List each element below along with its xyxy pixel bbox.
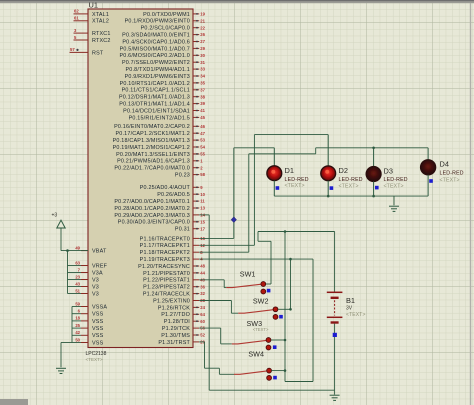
svg-text:SW4: SW4 — [248, 349, 264, 358]
switch SW2 state indicator — [279, 315, 283, 319]
wire V feed D3D4 x254.4 — [253, 135, 255, 246]
svg-text:VBAT: VBAT — [92, 249, 107, 255]
wire D1 anode drop — [273, 148, 275, 166]
svg-text:63: 63 — [75, 260, 80, 265]
wire SW1 pole feed seg2 — [223, 280, 225, 288]
pin P0.20/MAT1.3/SSEL1/EINT3 leg — [193, 153, 199, 155]
pin P0.23 leg — [193, 174, 199, 176]
wire D3 anode drop — [373, 148, 375, 167]
wire ground stem LED rail — [393, 196, 395, 205]
svg-text:35: 35 — [200, 81, 205, 86]
pin P0.17/CAP1.2/SCK1/MAT1.2 leg — [193, 132, 199, 134]
svg-text:P0.2/SCL0/CAP0.0: P0.2/SCL0/CAP0.0 — [141, 26, 190, 32]
wire H feed D2 y134.6 — [254, 134, 328, 136]
pin P1.17/TRACEPKT1 leg — [193, 244, 199, 246]
svg-text:51: 51 — [75, 288, 80, 293]
svg-text:P0.8/TXD1/PWM4/AD1.1: P0.8/TXD1/PWM4/AD1.1 — [125, 67, 190, 73]
svg-text:P1.25/EXTIN0: P1.25/EXTIN0 — [153, 298, 190, 304]
svg-text:P1.22/PIPESTAT1: P1.22/PIPESTAT1 — [143, 278, 190, 284]
pin P1.18/TRACEPKT2 leg — [193, 251, 199, 253]
wire SW4 pole feed seg3 — [205, 367, 220, 369]
wire H feed D3D4 lower y153.8 — [249, 153, 316, 155]
pin P0.31 leg — [193, 228, 199, 230]
svg-text:P0.25/AD0.4/AOUT: P0.25/AD0.4/AOUT — [140, 185, 191, 191]
wire SW2 pole feed seg2 — [230, 301, 232, 314]
switch SW4 state indicator — [273, 376, 277, 380]
svg-text:P0.13/DTR1/MAT1.1/AD1.4: P0.13/DTR1/MAT1.1/AD1.4 — [119, 102, 190, 108]
pin V3 leg — [81, 293, 88, 295]
svg-text:P1.27/TDO: P1.27/TDO — [161, 312, 190, 318]
svg-text:P0.9/RXD1/PWM6/EINT3: P0.9/RXD1/PWM6/EINT3 — [125, 74, 190, 80]
svg-text:+3: +3 — [52, 213, 58, 219]
pin P0.16/EINT0/MAT0.2/CAP0.2 leg — [193, 125, 199, 127]
pin P0.1/RXD0/PWM3/EINT0 leg — [193, 20, 199, 22]
svg-text:V3: V3 — [92, 284, 99, 290]
svg-text:P0.5/MISO0/MAT0.1/AD0.7: P0.5/MISO0/MAT0.1/AD0.7 — [120, 46, 190, 52]
svg-text:<TEXT>: <TEXT> — [346, 312, 366, 318]
svg-text:54: 54 — [200, 145, 205, 150]
pin V3A leg — [81, 272, 88, 274]
svg-text:U1: U1 — [89, 1, 98, 10]
svg-text:64: 64 — [200, 312, 205, 317]
wire H zigzag y241.3 — [258, 240, 271, 242]
pin P0.2/SCL0/CAP0.0 leg — [193, 27, 199, 29]
switch SW3 lever — [232, 340, 267, 344]
svg-text:P1.26/RTCK: P1.26/RTCK — [158, 305, 190, 311]
wire stub P0.29 — [199, 214, 209, 216]
svg-text:49: 49 — [75, 245, 80, 250]
svg-text:VSS: VSS — [92, 333, 104, 339]
svg-text:27: 27 — [200, 39, 205, 44]
wire H feed D3 D4 y147.8 — [316, 147, 428, 149]
svg-text:P0.18/CAP1.3/MISO1/MAT1.3: P0.18/CAP1.3/MISO1/MAT1.3 — [113, 138, 190, 144]
svg-text:P0.20/MAT1.3/SSEL1/EINT3: P0.20/MAT1.3/SSEL1/EINT3 — [116, 152, 190, 158]
svg-text:61: 61 — [74, 16, 79, 21]
bottom-left scrollbar corner — [0, 399, 28, 405]
switch SW2 lever — [238, 310, 273, 314]
wire V x313 — [312, 259, 314, 381]
svg-text:<TEXT>: <TEXT> — [339, 183, 359, 189]
svg-text:50: 50 — [75, 337, 80, 342]
wire SW1 pole feed seg3 — [224, 287, 226, 289]
svg-text:RTXC1: RTXC1 — [92, 31, 111, 37]
svg-text:30: 30 — [200, 53, 205, 58]
switch SW3 state indicator — [273, 345, 277, 349]
svg-text:P0.1/RXD0/PWM3/EINT0: P0.1/RXD0/PWM3/EINT0 — [125, 19, 190, 25]
svg-text:18: 18 — [75, 316, 80, 321]
wire SW4 throw wire seg1 — [272, 370, 285, 372]
svg-text:32: 32 — [200, 291, 205, 296]
svg-text:RST: RST — [92, 50, 104, 56]
svg-text:P0.27/AD0.0/CAP0.1/MAT0.1: P0.27/AD0.0/CAP0.1/MAT0.1 — [114, 199, 190, 205]
switch SW3 throw contact lower — [266, 345, 271, 350]
wire VSS bus stub y328.1 — [72, 327, 81, 329]
pin P0.10/RTS1/CAP1.0/AD1.2 leg — [193, 82, 199, 84]
wire H bottom ground rail y390.2 — [209, 389, 334, 391]
wire stub P1.18 — [199, 251, 249, 253]
svg-text:V3: V3 — [92, 291, 99, 297]
svg-text:P0.10/RTS1/CAP1.0/AD1.2: P0.10/RTS1/CAP1.0/AD1.2 — [120, 81, 190, 87]
svg-text:P1.23/PIPESTAT2: P1.23/PIPESTAT2 — [143, 285, 190, 291]
pin P1.26/RTCK leg — [193, 306, 199, 308]
svg-text:19: 19 — [200, 12, 205, 17]
node junction SW4 throw — [284, 369, 287, 372]
wire V SW2 throw x290.5 — [290, 259, 292, 309]
node junction D3 tap — [372, 147, 375, 150]
pin P0.0/TXD0/PWM1 leg — [193, 13, 199, 15]
svg-text:55: 55 — [200, 152, 205, 157]
pin P0.28/AD0.1/CAP0.2/MAT0.2 leg — [193, 207, 199, 209]
pin P0.30/AD0.3/EINT3/CAP0.0 leg — [193, 221, 199, 223]
pin P0.12/DSR1/MAT1.0/AD1.3 leg — [193, 96, 199, 98]
pin P0.18/CAP1.3/MISO1/MAT1.3 leg — [193, 139, 199, 141]
svg-text:D3: D3 — [384, 167, 393, 176]
wire H y381.5 — [285, 381, 313, 383]
wire H P1.19 y259.1 — [199, 258, 313, 260]
svg-text:P0.3/SDA0/MAT0.0/EINT1: P0.3/SDA0/MAT0.0/EINT1 — [122, 33, 190, 39]
wire SW4 pole feed seg5 — [219, 373, 234, 375]
pin VSS leg — [81, 313, 88, 315]
svg-text:P1.16/TRACEPKT0: P1.16/TRACEPKT0 — [140, 236, 190, 242]
pin VSS leg — [81, 334, 88, 336]
svg-text:36: 36 — [200, 284, 205, 289]
svg-text:XTAL2: XTAL2 — [92, 19, 109, 25]
pin P1.19/TRACEPKT3 leg — [193, 258, 199, 260]
svg-text:P0.21/PWM5/AD1.6/CAP1.3: P0.21/PWM5/AD1.6/CAP1.3 — [117, 159, 190, 165]
pin P0.8/TXD1/PWM4/AD1.1 leg — [193, 68, 199, 70]
svg-text:P1.17/TRACEPKT1: P1.17/TRACEPKT1 — [140, 243, 190, 249]
microcontroller U1 body — [88, 9, 193, 348]
pin P1.24/TRACECLK leg — [193, 293, 199, 295]
wire V feed D1 x233.8 — [233, 148, 235, 239]
pin VSS leg — [81, 320, 88, 322]
svg-text:P1.30/TMS: P1.30/TMS — [161, 333, 190, 339]
ground GND LED rail — [389, 206, 399, 211]
pin P1.28/TDI leg — [193, 320, 199, 322]
svg-text:VSS: VSS — [92, 319, 104, 325]
svg-text:D1: D1 — [285, 166, 294, 175]
svg-text:37: 37 — [200, 87, 205, 92]
wire VSS bus stub y313.7 — [72, 313, 81, 315]
wire SW3 pole feed seg2 — [220, 328, 222, 344]
wire LED cathode rail y196.1 — [274, 195, 428, 197]
switch SW2 throw contact lower — [273, 315, 278, 320]
svg-text:34: 34 — [200, 74, 205, 79]
svg-text:P0.7/SSEL0/PWM2/EINT2: P0.7/SSEL0/PWM2/EINT2 — [122, 60, 190, 66]
wire V3 bus stub y279.5 — [68, 279, 82, 281]
pin P0.9/RXD1/PWM6/EINT3 leg — [193, 75, 199, 77]
pin P0.27/AD0.0/CAP0.1/MAT0.1 leg — [193, 200, 199, 202]
svg-text:V3A: V3A — [92, 270, 103, 276]
svg-text:P0.16/EINT0/MAT0.2/CAP0.2: P0.16/EINT0/MAT0.2/CAP0.2 — [114, 124, 190, 130]
wire D3 cathode drop — [373, 181, 375, 196]
pin P0.11/CTS1/CAP1.1/SCL1 leg — [193, 89, 199, 91]
pin P0.19/MAT1.2/MOSI1/CAP1.2 leg — [193, 146, 199, 148]
pin VSS leg — [81, 327, 88, 329]
svg-text:62: 62 — [74, 9, 79, 14]
wire SW2 pole feed seg1 — [199, 300, 231, 302]
svg-text:D2: D2 — [339, 166, 348, 175]
svg-text:P1.29/TCK: P1.29/TCK — [162, 326, 190, 332]
svg-text:D4: D4 — [440, 160, 449, 169]
node junction SW3 throw — [284, 339, 287, 342]
ground GND battery — [330, 395, 340, 400]
pin P1.27/TDO leg — [193, 313, 199, 315]
svg-text:P1.24/TRACECLK: P1.24/TRACECLK — [143, 292, 190, 298]
wire SW3 throw wire seg1 — [271, 339, 285, 341]
wire SW1 throw wire seg1 — [266, 283, 271, 285]
svg-text:P1.21/PIPESTAT0: P1.21/PIPESTAT0 — [143, 271, 190, 277]
svg-text:24: 24 — [200, 305, 205, 310]
pin XTAL2 leg — [74, 20, 89, 22]
pin P1.22/PIPESTAT1 leg — [193, 279, 199, 281]
wire D2 anode drop — [327, 135, 329, 166]
svg-text:P0.30/AD0.3/EINT3/CAP0.0: P0.30/AD0.3/EINT3/CAP0.0 — [118, 220, 190, 226]
svg-text:P0.12/DSR1/MAT1.0/AD1.3: P0.12/DSR1/MAT1.0/AD1.3 — [119, 95, 190, 101]
svg-text:LED-RED: LED-RED — [440, 170, 464, 176]
pin P0.29/AD0.2/CAP0.3/MAT0.3 leg — [193, 214, 199, 216]
LED D2 state indicator — [330, 186, 334, 190]
pin VSS leg — [81, 342, 88, 344]
pin VSSA leg — [81, 306, 88, 308]
wire SW4 pole feed seg1 — [199, 341, 204, 343]
svg-text:58: 58 — [200, 172, 205, 177]
svg-text:17: 17 — [200, 226, 205, 231]
wire SW3 pole feed seg1 — [199, 327, 221, 329]
node junction +3V/V3 bus — [66, 249, 69, 252]
switch SW4 throw contact lower — [267, 376, 272, 381]
LED D3 — [366, 167, 381, 182]
svg-text:11: 11 — [200, 199, 205, 204]
top window edge bar — [0, 0, 474, 1]
pin P1.29/TCK leg — [193, 327, 199, 329]
svg-text:33: 33 — [200, 67, 205, 72]
switch SW1 lever — [226, 284, 261, 287]
pin P1.20/TRACESYNC leg — [193, 265, 199, 267]
LED D4 state indicator — [429, 179, 433, 183]
svg-text:<TEXT>: <TEXT> — [440, 178, 460, 184]
switch SW4 throw contact upper — [267, 368, 272, 373]
svg-text:45: 45 — [200, 115, 205, 120]
svg-text:P0.19/MAT1.2/MOSI1/CAP1.2: P0.19/MAT1.2/MOSI1/CAP1.2 — [113, 145, 190, 151]
pin P0.6/MOSI0/CAP0.2/AD1.0 leg — [193, 54, 199, 56]
switch SW1 throw contact upper — [261, 282, 266, 287]
wire D1 cathode drop — [273, 181, 275, 197]
wire V3 bus stub y293.5 — [68, 293, 82, 295]
wire VSS bus stub y342.5 — [72, 342, 81, 344]
svg-text:P0.31: P0.31 — [175, 227, 190, 233]
node junction x285 — [284, 230, 287, 233]
svg-text:15: 15 — [200, 219, 205, 224]
svg-text:RTXC2: RTXC2 — [92, 38, 111, 44]
wire VSS bus to ground — [61, 342, 72, 344]
wire SW2 throw wire seg1 — [278, 308, 290, 310]
pin VREF leg — [81, 265, 88, 267]
pin P0.15/RI1/EINT2/AD1.5 leg — [193, 116, 199, 118]
wire VSS bus stub y320.9 — [72, 320, 81, 322]
pin VBAT leg — [81, 250, 88, 252]
wire battery positive lead — [334, 232, 336, 292]
right window edge line — [470, 3, 471, 405]
pin P0.22/AD1.7/CAP0.0/MAT0.0 leg — [193, 167, 199, 169]
pin RST leg — [70, 51, 89, 53]
switch SW3 throw contact upper — [266, 338, 271, 343]
pin P1.30/TMS leg — [193, 334, 199, 336]
LED D3 state indicator — [375, 186, 379, 190]
pin P0.25/AD0.4/AOUT leg — [193, 186, 199, 188]
svg-text:VSS: VSS — [92, 326, 104, 332]
svg-text:38: 38 — [200, 94, 205, 99]
svg-text:VSS: VSS — [92, 340, 104, 346]
svg-text:P0.0/TXD0/PWM1: P0.0/TXD0/PWM1 — [143, 12, 190, 18]
wire battery ground stem — [334, 390, 336, 394]
pin XTAL1 leg — [74, 13, 89, 15]
wire V3 bus stub y286.5 — [68, 286, 82, 288]
pin P0.26/AD0.5 leg — [193, 193, 199, 195]
pin V3 leg — [81, 279, 88, 281]
svg-text:VSSA: VSSA — [92, 304, 107, 310]
svg-text:29: 29 — [200, 46, 205, 51]
svg-text:<TEXT>: <TEXT> — [384, 183, 404, 189]
pin P1.31/TRST leg — [193, 341, 199, 343]
node junction y259.1/x290.5 — [289, 258, 292, 261]
svg-text:23: 23 — [75, 274, 80, 279]
svg-text:<TEXT>: <TEXT> — [86, 357, 103, 362]
pin P1.25/EXTIN0 leg — [193, 300, 199, 302]
svg-text:XTAL1: XTAL1 — [92, 12, 109, 18]
svg-text:P0.29/AD0.2/CAP0.3/MAT0.3: P0.29/AD0.2/CAP0.3/MAT0.3 — [114, 213, 190, 219]
svg-text:LED-RED: LED-RED — [285, 177, 309, 183]
LED D1 state indicator — [276, 186, 280, 190]
pin P0.13/DTR1/MAT1.1/AD1.4 leg — [193, 103, 199, 105]
svg-text:57: 57 — [70, 47, 75, 52]
svg-text:P0.28/AD0.1/CAP0.2/MAT0.2: P0.28/AD0.1/CAP0.2/MAT0.2 — [114, 206, 190, 212]
svg-text:46: 46 — [200, 124, 205, 129]
svg-text:13: 13 — [200, 206, 205, 211]
svg-text:LED-RED: LED-RED — [384, 177, 408, 183]
pin P1.23/PIPESTAT2 leg — [193, 286, 199, 288]
node junction rail D3 — [372, 195, 375, 198]
wire SW2 pole feed seg3 — [231, 312, 238, 314]
node junction rail D2 — [327, 195, 330, 198]
power terminal +3V — [57, 220, 65, 228]
wire +3V to VBAT — [61, 250, 88, 252]
svg-text:41: 41 — [200, 108, 205, 113]
svg-text:39: 39 — [200, 101, 205, 106]
svg-text:P1.20/TRACESYNC: P1.20/TRACESYNC — [138, 264, 190, 270]
svg-text:P0.4/SCK0/CAP0.1/AD0.6: P0.4/SCK0/CAP0.1/AD0.6 — [122, 39, 190, 45]
LED D4 — [421, 160, 436, 175]
svg-text:VREF: VREF — [92, 263, 108, 269]
svg-text:P0.26/AD0.5: P0.26/AD0.5 — [157, 192, 190, 198]
pin P0.7/SSEL0/PWM2/EINT2 leg — [193, 61, 199, 63]
wire V3 bus stub y272.5 — [68, 272, 82, 274]
svg-text:P0.6/MOSI0/CAP0.2/AD1.0: P0.6/MOSI0/CAP0.2/AD1.0 — [119, 53, 190, 59]
svg-text:P0.17/CAP1.2/SCK1/MAT1.2: P0.17/CAP1.2/SCK1/MAT1.2 — [115, 131, 190, 137]
wire H feed D1 y147.8 — [234, 147, 274, 149]
svg-text:P0.23: P0.23 — [175, 173, 190, 179]
svg-text:P1.28/TDI: P1.28/TDI — [164, 319, 190, 325]
svg-text:21: 21 — [200, 18, 205, 23]
pin P0.5/MISO0/MAT0.1/AD0.7 leg — [193, 47, 199, 49]
pin V3 leg — [81, 286, 88, 288]
switch SW1 state indicator — [267, 289, 271, 293]
wire stub P1.16 — [199, 237, 234, 239]
pin P1.16/TRACEPKT0 leg — [193, 237, 199, 239]
svg-text:P1.18/TRACEPKT2: P1.18/TRACEPKT2 — [140, 250, 190, 256]
node junction SW2 throw — [289, 308, 292, 311]
wire battery negative lead — [334, 324, 336, 391]
svg-text:59: 59 — [75, 301, 80, 306]
wire V SW1 throw x271 — [270, 241, 272, 284]
wire V switch bus x285 — [284, 232, 286, 382]
pin P0.3/SDA0/MAT0.0/EINT1 leg — [193, 34, 199, 36]
wire SW1 pole feed seg1 — [199, 279, 224, 281]
svg-text:P0.11/CTS1/CAP1.1/SCL1: P0.11/CTS1/CAP1.1/SCL1 — [122, 88, 190, 94]
svg-text:SW2: SW2 — [253, 296, 269, 305]
wire SW4 pole feed seg4 — [218, 368, 220, 374]
svg-text:31: 31 — [200, 60, 205, 65]
svg-text:43: 43 — [75, 281, 80, 286]
svg-text:P1.19/TRACEPKT3: P1.19/TRACEPKT3 — [140, 257, 190, 263]
svg-text:52: 52 — [200, 333, 205, 338]
pin RTXC2 leg — [74, 39, 89, 41]
svg-text:42: 42 — [75, 330, 80, 335]
wire VSS bus stub y335.3 — [72, 334, 81, 336]
pin RTXC1 leg — [74, 32, 89, 34]
wire V jog x315.7 — [315, 148, 317, 154]
pin P0.21/PWM5/AD1.6/CAP1.3 leg — [193, 160, 199, 162]
svg-text:P0.22/AD1.7/CAP0.0/MAT0.0: P0.22/AD1.7/CAP0.0/MAT0.0 — [114, 166, 190, 172]
svg-text:10: 10 — [200, 192, 205, 197]
svg-text:VSS: VSS — [92, 312, 104, 318]
svg-text:47: 47 — [200, 131, 205, 136]
ground GND left — [56, 368, 66, 373]
wire D4 anode drop — [427, 148, 429, 160]
wire +3V stem — [60, 228, 62, 251]
svg-text:<TEXT>: <TEXT> — [253, 327, 269, 332]
wire SW3 pole feed seg3 — [221, 343, 232, 345]
junction marker on D1 feed — [231, 217, 236, 223]
wire VSS bus vertical — [71, 307, 73, 343]
pin P0.4/SCK0/CAP0.1/AD0.6 leg — [193, 41, 199, 43]
svg-text:P0.14/DCD1/EINT1/SDA1: P0.14/DCD1/EINT1/SDA1 — [123, 108, 190, 114]
svg-text:44: 44 — [200, 271, 205, 276]
battery B1 state indicator — [333, 333, 337, 337]
svg-text:60: 60 — [200, 319, 205, 324]
svg-text:P1.31/TRST: P1.31/TRST — [158, 340, 190, 346]
svg-text:22: 22 — [200, 25, 205, 30]
wire VSS bus stub y306.5 — [72, 306, 81, 308]
svg-text:SW1: SW1 — [240, 270, 256, 279]
svg-text:LED-RED: LED-RED — [339, 177, 363, 183]
wire V feed D2 x248.8 — [248, 154, 250, 252]
svg-text:25: 25 — [75, 323, 80, 328]
svg-text:48: 48 — [200, 264, 205, 269]
wire V3 bus stub y265.5 — [68, 265, 82, 267]
LED D1 — [267, 166, 282, 181]
svg-text:B1: B1 — [346, 296, 355, 305]
switch SW1 throw contact lower — [261, 289, 266, 294]
wire stub P1.17 — [199, 244, 254, 246]
pin P0.14/DCD1/EINT1/SDA1 leg — [193, 110, 199, 112]
switch SW2 throw contact upper — [273, 307, 278, 312]
pin P1.21/PIPESTAT0 leg — [193, 272, 199, 274]
wire D2 cathode drop — [327, 181, 329, 196]
svg-text:P0.15/RI1/EINT2/AD1.5: P0.15/RI1/EINT2/AD1.5 — [129, 115, 190, 121]
wire V bus x209.2 — [208, 215, 210, 390]
wire V3 bus vertical — [67, 251, 69, 294]
